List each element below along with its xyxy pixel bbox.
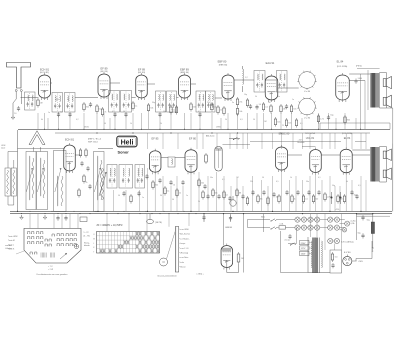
- svg-text:UCL 81: UCL 81: [306, 137, 315, 140]
- svg-text:2k: 2k: [160, 123, 162, 125]
- svg-text:50n: 50n: [210, 177, 213, 179]
- svg-text:1k: 1k: [179, 192, 181, 194]
- svg-text:127V: 127V: [301, 248, 306, 250]
- svg-text:30k: 30k: [260, 198, 263, 200]
- svg-text:0,5: 0,5: [198, 111, 201, 113]
- svg-text:2k: 2k: [198, 201, 200, 203]
- svg-text:+ 2 W: + 2 W: [48, 269, 53, 271]
- svg-text:.EM 80: .EM 80: [225, 227, 233, 229]
- svg-text:EAA 91: EAA 91: [266, 61, 275, 65]
- svg-text:2k: 2k: [86, 182, 88, 184]
- svg-text:ECH 81: ECH 81: [65, 137, 75, 141]
- svg-text:EF 89: EF 89: [101, 66, 108, 70]
- svg-text:25k: 25k: [207, 102, 210, 104]
- svg-text:5000: 5000: [358, 78, 362, 80]
- svg-text:5k: 5k: [255, 96, 257, 98]
- svg-text:U = 80: U = 80: [304, 91, 311, 93]
- svg-text:25: 25: [282, 125, 284, 127]
- svg-text:50: 50: [60, 112, 62, 114]
- svg-text:(6 - 7V): (6 - 7V): [84, 235, 91, 237]
- svg-text:1M: 1M: [40, 102, 43, 104]
- svg-text:(EBF 80): (EBF 80): [180, 72, 189, 74]
- svg-text:0,1: 0,1: [265, 106, 268, 108]
- svg-text:50: 50: [118, 195, 120, 197]
- svg-text:zum Netz-: zum Netz-: [180, 256, 189, 259]
- svg-text:zum UKW-: zum UKW-: [180, 229, 189, 231]
- svg-text:EF 80: EF 80: [189, 136, 196, 140]
- svg-text:50: 50: [172, 199, 174, 201]
- svg-text:Heli: Heli: [121, 140, 134, 147]
- svg-text:Klang-: Klang-: [84, 243, 90, 245]
- svg-text:50: 50: [123, 111, 125, 113]
- svg-text:5k: 5k: [225, 119, 227, 121]
- svg-text:(EF 89): (EF 89): [138, 72, 146, 74]
- svg-text:6,3V 0,2A Skala: 6,3V 0,2A Skala: [341, 240, 354, 243]
- svg-text:(PM 4): (PM 4): [356, 66, 362, 68]
- svg-text:50: 50: [173, 184, 175, 186]
- svg-text:Taste UKW: Taste UKW: [8, 235, 18, 238]
- svg-text:Ant.-Buchse: Ant.-Buchse: [180, 233, 190, 236]
- svg-text:EL 84: EL 84: [337, 60, 344, 64]
- svg-text:0,1: 0,1: [112, 111, 115, 113]
- svg-text:Dipol: Dipol: [1, 148, 6, 150]
- svg-text:Taste M: Taste M: [8, 239, 15, 242]
- svg-text:50p: 50p: [163, 111, 166, 113]
- svg-text:2x0,1μ: 2x0,1μ: [284, 239, 289, 241]
- svg-text:50: 50: [104, 123, 106, 125]
- svg-text:EABC 80: EABC 80: [279, 131, 290, 135]
- svg-text:2k: 2k: [104, 111, 106, 113]
- svg-text:Masse: Masse: [180, 267, 185, 269]
- svg-text:(Heizung): (Heizung): [180, 253, 188, 255]
- svg-text:220V: 220V: [301, 243, 306, 245]
- svg-text:lampe: lampe: [180, 243, 185, 245]
- svg-text:Baufunk: Baufunk: [298, 142, 305, 144]
- svg-text:50n: 50n: [335, 257, 338, 259]
- svg-text:50n: 50n: [277, 96, 280, 98]
- svg-text:50k: 50k: [215, 192, 218, 194]
- svg-text:(UCL 82/A): (UCL 82/A): [342, 132, 353, 135]
- svg-text:110V: 110V: [301, 254, 306, 256]
- svg-text:(ECH 81): (ECH 81): [40, 72, 49, 74]
- svg-text:(TA /TB): (TA /TB): [155, 221, 162, 224]
- svg-text:≈ 230Ω +: ≈ 230Ω +: [196, 273, 205, 275]
- svg-text:blende: blende: [84, 245, 90, 247]
- svg-text:Netz: Netz: [261, 215, 265, 218]
- svg-text:(EBF-80): (EBF-80): [219, 65, 228, 67]
- svg-text:0,1: 0,1: [226, 194, 229, 196]
- svg-text:EBF 89: EBF 89: [180, 67, 189, 71]
- svg-text:10p: 10p: [244, 94, 247, 96]
- svg-text:1n: 1n: [142, 197, 144, 199]
- svg-text:EF 89: EF 89: [138, 67, 145, 71]
- svg-text:L: L: [93, 243, 94, 245]
- svg-text:50n: 50n: [277, 121, 280, 123]
- svg-text:0,3: 0,3: [240, 119, 243, 121]
- svg-text:50μ: 50μ: [358, 232, 361, 234]
- svg-text:N: N: [163, 261, 165, 264]
- svg-text:30k: 30k: [86, 106, 89, 108]
- svg-text:0,2: 0,2: [76, 119, 79, 121]
- svg-text:1n: 1n: [186, 195, 188, 197]
- svg-text:EL 84: EL 84: [344, 137, 351, 140]
- svg-text:1M: 1M: [283, 108, 286, 110]
- svg-text:50V 50/5A: 50V 50/5A: [305, 132, 315, 135]
- svg-text:zum Ant.: zum Ant.: [5, 244, 12, 247]
- svg-text:5 - 7V: 5 - 7V: [84, 232, 90, 234]
- svg-text:4,7k: 4,7k: [320, 118, 324, 120]
- svg-text:5k: 5k: [346, 181, 348, 183]
- svg-text:+ 50n: + 50n: [298, 140, 303, 142]
- svg-text:(UCL 82/A): (UCL 82/A): [337, 65, 348, 68]
- svg-text:1k: 1k: [294, 198, 296, 200]
- svg-text:50k: 50k: [150, 107, 153, 109]
- svg-text:50μ: 50μ: [330, 115, 333, 117]
- svg-text:ZF = 460kHz + 10,7MHz: ZF = 460kHz + 10,7MHz: [97, 224, 124, 227]
- svg-text:800: 800: [347, 119, 350, 121]
- svg-text:50n: 50n: [293, 108, 296, 110]
- svg-text:0,5: 0,5: [276, 181, 279, 183]
- svg-text:(Netz): (Netz): [371, 247, 374, 253]
- svg-text:(85V): (85V): [84, 126, 89, 128]
- svg-text:L-Boden: L-Boden: [5, 248, 12, 250]
- svg-text:Drucktastensatz von vorn geseh: Drucktastensatz von vorn gesehen: [37, 273, 68, 276]
- svg-text:0,1: 0,1: [222, 179, 225, 181]
- svg-text:0,1: 0,1: [358, 185, 361, 187]
- svg-text:0,1: 0,1: [214, 106, 217, 108]
- svg-text:50k: 50k: [239, 111, 242, 113]
- svg-text:≈250: ≈250: [335, 209, 339, 211]
- svg-text:1n: 1n: [292, 99, 294, 101]
- svg-text:0,1: 0,1: [305, 198, 308, 200]
- svg-text:20k: 20k: [201, 182, 204, 184]
- svg-text:25k: 25k: [250, 181, 253, 183]
- svg-text:+ 7 V: + 7 V: [48, 266, 53, 268]
- svg-text:AM-Taste: AM-Taste: [206, 134, 215, 137]
- svg-text:1k: 1k: [220, 109, 222, 111]
- svg-text:(EBF 1 / EC+4: (EBF 1 / EC+4: [88, 139, 102, 141]
- svg-text:U = 80: U = 80: [304, 118, 311, 120]
- svg-text:6k: 6k: [41, 119, 43, 121]
- svg-text:50μ: 50μ: [332, 185, 335, 187]
- svg-text:0,1: 0,1: [135, 105, 138, 107]
- svg-text:EF 85: EF 85: [152, 136, 159, 140]
- svg-text:0,1: 0,1: [167, 190, 170, 192]
- svg-text:ECH 81: ECH 81: [40, 67, 50, 71]
- svg-text:(78V): (78V): [216, 126, 221, 128]
- svg-text:EBF 80: EBF 80: [218, 60, 227, 64]
- svg-text:50k: 50k: [193, 106, 196, 108]
- svg-text:50μ: 50μ: [367, 219, 370, 221]
- svg-text:1k: 1k: [130, 123, 132, 125]
- svg-text:50: 50: [253, 119, 255, 121]
- svg-text:zur Skalen-: zur Skalen-: [180, 238, 189, 240]
- svg-text:1n: 1n: [48, 112, 50, 114]
- svg-text:0,1: 0,1: [318, 177, 321, 179]
- svg-text:2n: 2n: [67, 99, 69, 101]
- svg-text:Sonor: Sonor: [118, 150, 130, 155]
- svg-text:zum 2. LS: zum 2. LS: [180, 248, 189, 250]
- svg-text:-230V: -230V: [358, 261, 364, 263]
- svg-text:25k: 25k: [239, 101, 242, 103]
- svg-text:0,1: 0,1: [300, 123, 303, 125]
- svg-text:(EF 89): (EF 89): [100, 71, 108, 73]
- svg-text:30p: 30p: [152, 102, 155, 104]
- svg-text:trafo: trafo: [180, 261, 184, 264]
- svg-text:30: 30: [160, 195, 162, 197]
- svg-text:50: 50: [259, 104, 261, 106]
- svg-text:1k: 1k: [290, 177, 292, 179]
- svg-text:50: 50: [262, 177, 264, 179]
- svg-text:3n: 3n: [232, 102, 234, 104]
- svg-text:50n: 50n: [276, 196, 279, 198]
- svg-text:NSF: 5614: NSF: 5614: [88, 141, 98, 143]
- svg-text:50k: 50k: [56, 99, 59, 101]
- svg-text:50n: 50n: [306, 181, 309, 183]
- svg-text:E Z 80: E Z 80: [344, 252, 351, 254]
- svg-text:50n: 50n: [288, 122, 291, 124]
- svg-text:Chassis-Lötösenleiste: Chassis-Lötösenleiste: [157, 274, 177, 277]
